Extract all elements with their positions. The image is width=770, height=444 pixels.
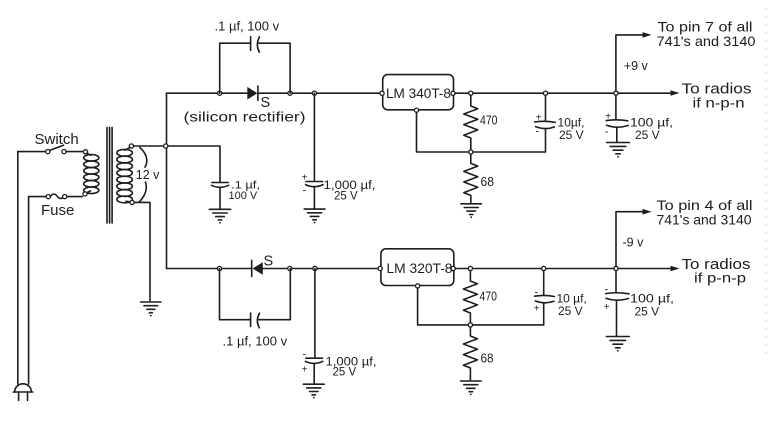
ground below R4 bbox=[461, 381, 482, 395]
wire up to pin7 arrow bbox=[616, 35, 644, 91]
svg-text:25 V: 25 V bbox=[635, 128, 660, 142]
node +9 junction bbox=[614, 91, 618, 95]
wire bottom rail right of U2 bbox=[455, 268, 671, 270]
wire junction to snubber cap bbox=[168, 146, 220, 182]
capacitor C5 100uf 25V top bbox=[605, 95, 628, 142]
arrowhead pin7 bbox=[643, 32, 652, 38]
arrowhead to radios npn bbox=[671, 90, 680, 96]
capacitor C1 .1uf 100V snubber bbox=[212, 183, 229, 210]
node C4 top bbox=[543, 91, 547, 95]
svg-text:12 v: 12 v bbox=[136, 168, 160, 182]
capacitor C7 1000uf 25V bottom bbox=[302, 269, 323, 385]
svg-text:25 V: 25 V bbox=[333, 367, 357, 379]
svg-text:25 V: 25 V bbox=[558, 304, 583, 318]
node R3/R4 junction bbox=[468, 323, 472, 327]
ground below C3 bbox=[304, 209, 325, 223]
svg-text:+: + bbox=[302, 173, 308, 184]
capacitor C4 10uf 25V top bbox=[535, 95, 556, 152]
node R3 top bbox=[468, 266, 472, 270]
brace 12v lower bbox=[139, 182, 147, 202]
ground below C9 bbox=[606, 337, 629, 352]
svg-text:+9 v: +9 v bbox=[624, 59, 649, 73]
wire U2 ground pin down and right bbox=[418, 288, 544, 325]
capacitor C2 .1uf bypass loop top bbox=[220, 37, 290, 93]
label C8 value bbox=[557, 292, 587, 319]
svg-text:-: - bbox=[535, 287, 539, 299]
ground below R2 bbox=[461, 204, 482, 218]
resistor R1 470 top bbox=[464, 95, 478, 152]
svg-text:741's and 3140: 741's and 3140 bbox=[657, 33, 756, 49]
svg-text:-: - bbox=[605, 284, 609, 296]
label To pin 7 bbox=[657, 19, 756, 50]
wire bottom rail left segment bbox=[167, 268, 252, 270]
label C9 value bbox=[630, 292, 674, 319]
node C8 bottom bbox=[542, 266, 546, 270]
capacitor C6 .1uf bypass loop bottom bbox=[220, 269, 291, 328]
svg-text:Fuse: Fuse bbox=[41, 202, 74, 219]
svg-text:68: 68 bbox=[481, 352, 494, 366]
wire fuse-left vertical to plug bbox=[28, 197, 30, 384]
wire main vertical AC feed bbox=[166, 93, 168, 268]
svg-text:25 V: 25 V bbox=[334, 191, 358, 203]
node 1000uf bottom bbox=[313, 266, 317, 270]
svg-text:LM 340T-8: LM 340T-8 bbox=[386, 86, 451, 101]
resistor R3 470 bottom bbox=[463, 271, 477, 325]
wire left vertical from switch to plug bbox=[17, 152, 19, 384]
svg-text:-: - bbox=[303, 185, 307, 197]
node bottom-right of diode bbox=[288, 266, 292, 270]
svg-text:if n-p-n: if n-p-n bbox=[693, 95, 745, 111]
svg-text:+: + bbox=[605, 112, 611, 123]
svg-text:470: 470 bbox=[480, 290, 498, 304]
svg-text:LM 320T-8: LM 320T-8 bbox=[387, 261, 453, 276]
label To radios pnp bbox=[682, 257, 751, 286]
switch S1 bbox=[18, 145, 84, 154]
transformer T1 primary winding bbox=[83, 150, 99, 196]
ground below C7 bbox=[303, 384, 324, 398]
svg-text:-: - bbox=[536, 126, 540, 138]
node top-left of diode bbox=[218, 91, 222, 95]
node R1 top bbox=[469, 91, 473, 95]
svg-text:Switch: Switch bbox=[35, 131, 79, 148]
wire secondary top to junction bbox=[134, 145, 164, 147]
svg-text:+: + bbox=[302, 365, 308, 376]
wire up to pin4 arrow bbox=[616, 212, 644, 267]
svg-text:68: 68 bbox=[481, 175, 495, 189]
svg-text:S: S bbox=[264, 254, 274, 270]
svg-text:470: 470 bbox=[480, 114, 498, 128]
node -9 junction bbox=[614, 266, 618, 270]
svg-text:741's and 3140: 741's and 3140 bbox=[657, 212, 752, 228]
brace 12v upper bbox=[140, 148, 147, 168]
regulator U2 LM320T-8 bbox=[378, 249, 455, 288]
ground below C5 bbox=[607, 143, 630, 158]
wire top rail left segment bbox=[167, 92, 248, 94]
label C5 value bbox=[630, 116, 673, 143]
svg-text:.1 µf, 100 v: .1 µf, 100 v bbox=[223, 334, 288, 349]
svg-text:+: + bbox=[536, 113, 542, 124]
node top-right of diode bbox=[288, 91, 292, 95]
label To pin 4 bbox=[657, 197, 753, 228]
svg-text:+: + bbox=[604, 302, 610, 313]
resistor R2 68 top bbox=[464, 154, 478, 203]
diode D2 bbox=[252, 260, 263, 276]
svg-text:+: + bbox=[534, 304, 540, 315]
svg-text:if p-n-p: if p-n-p bbox=[694, 270, 746, 286]
svg-text:100 V: 100 V bbox=[229, 190, 258, 202]
transformer T1 core bbox=[107, 127, 112, 223]
label C1 value bbox=[229, 180, 261, 203]
label C7 value bbox=[326, 357, 377, 379]
svg-text:-9 v: -9 v bbox=[623, 236, 645, 250]
capacitor C3 1000uf 25V bbox=[302, 93, 324, 209]
svg-text:100 µf,: 100 µf, bbox=[630, 292, 674, 306]
svg-text:25 V: 25 V bbox=[635, 305, 660, 319]
svg-text:.1 µf, 100 v: .1 µf, 100 v bbox=[215, 19, 280, 34]
wire top rail right of U1 bbox=[455, 92, 672, 94]
node junction AC bbox=[164, 144, 168, 148]
svg-text:-: - bbox=[303, 349, 307, 361]
scan edge artifact dotted line bbox=[765, 8, 767, 355]
node R1/R2 junction bbox=[469, 150, 473, 154]
arrowhead pin4 bbox=[643, 209, 652, 215]
wire U1 ground pin down and right bbox=[417, 112, 545, 152]
capacitor C9 100uf 25V bottom bbox=[604, 271, 629, 337]
ground below transformer bbox=[141, 302, 161, 317]
arrowhead to radios pnp bbox=[671, 266, 680, 272]
transformer T1 secondary winding bbox=[117, 144, 134, 205]
node bottom-left of diode bbox=[217, 266, 221, 270]
resistor R4 68 bottom bbox=[463, 327, 477, 381]
wire secondary bottom to ground bbox=[134, 202, 150, 300]
svg-text:(silicon rectifier): (silicon rectifier) bbox=[184, 109, 306, 125]
plug P1 bbox=[13, 384, 33, 401]
node 1000uf top bbox=[312, 91, 316, 95]
ground below C1 bbox=[209, 209, 230, 223]
regulator U1 LM340T-8 bbox=[380, 75, 455, 113]
svg-text:-: - bbox=[605, 126, 609, 138]
label To radios npn bbox=[682, 82, 752, 111]
wire top rail mid segment bbox=[258, 92, 381, 94]
label C3 value bbox=[324, 180, 376, 203]
diode D1 bbox=[247, 86, 258, 100]
capacitor C8 10uf 25V bottom bbox=[534, 271, 555, 325]
svg-text:25 V: 25 V bbox=[559, 128, 584, 142]
wire bottom rail mid segment bbox=[263, 268, 381, 270]
fuse F1 bbox=[29, 194, 83, 199]
label C4 value bbox=[558, 116, 585, 143]
